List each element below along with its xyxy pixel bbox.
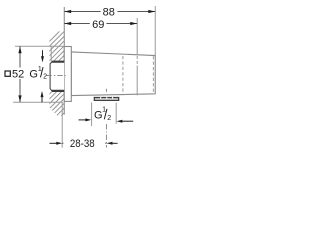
wall hatch lower [36, 78, 66, 142]
dimension 88 [64, 6, 155, 19]
outlet stub [94, 97, 119, 101]
dimension 28-38 left extension line [61, 103, 63, 148]
escutcheon plate [64, 47, 71, 102]
G1/2 wall label top arrow [41, 50, 44, 62]
svg-text:88: 88 [103, 7, 115, 19]
G1/2 wall label bottom arrow [41, 91, 44, 102]
svg-text:2: 2 [107, 115, 111, 122]
svg-text:69: 69 [92, 19, 104, 31]
wall hatch upper [36, 20, 66, 93]
hidden line near right face [152, 56, 154, 93]
left arrow [50, 142, 57, 144]
dimension 52 [4, 46, 27, 102]
svg-text:52: 52 [12, 69, 24, 81]
wall socket [50, 62, 64, 91]
square symbol [5, 71, 10, 76]
G1/2 outlet extension line right [115, 103, 117, 124]
right arrow [112, 142, 118, 144]
svg-text:2: 2 [43, 74, 47, 81]
hidden line inside body [122, 56, 124, 95]
svg-text:1: 1 [38, 66, 42, 73]
svg-text:1: 1 [102, 107, 106, 114]
dimension 52 bottom extension line [13, 101, 63, 103]
body joint line [136, 56, 138, 96]
dimension 52 top extension line [15, 45, 64, 47]
G1/2 outlet left arrow [79, 118, 92, 121]
dimension 69 [64, 18, 137, 31]
socket centerline [46, 74, 66, 76]
G1/2 outlet label [93, 106, 112, 122]
body outline [71, 52, 155, 96]
svg-text:28-38: 28-38 [70, 138, 95, 150]
dimension 69 extension line right [136, 18, 138, 55]
rough wall edge segment [50, 46, 52, 61]
dimension 88 extension line right [154, 6, 156, 56]
dimension 28-38 [50, 138, 118, 150]
G1/2 wall label [29, 66, 47, 81]
wall face line [63, 7, 65, 115]
G1/2 outlet extension line left [91, 102, 93, 126]
G1/2 outlet right arrow [117, 120, 134, 123]
outlet centerline [105, 89, 107, 92]
svg-text:G: G [29, 68, 38, 80]
